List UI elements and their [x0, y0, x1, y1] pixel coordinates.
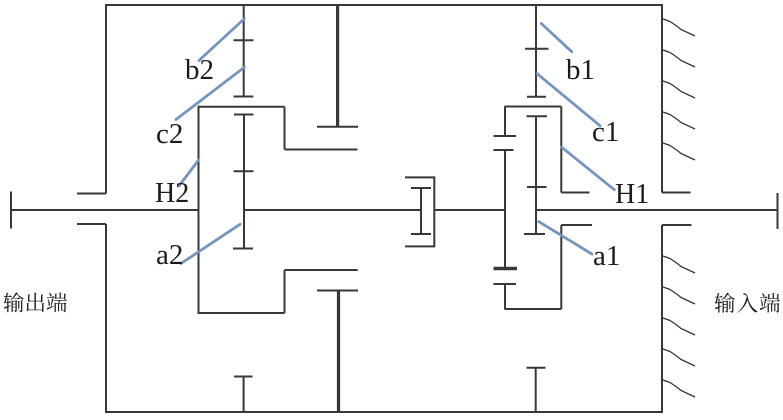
- stage1 left column upper segment: [504, 107, 506, 137]
- input shaft: [536, 209, 778, 211]
- stage2 bottom support tee stem: [243, 377, 245, 413]
- stage1 left column lower mating cap: [494, 283, 517, 285]
- carrier H1 lower stub: [561, 224, 592, 226]
- leader H2: [179, 160, 199, 186]
- carrier H2 right edge lower: [284, 270, 286, 313]
- svg-text:H2: H2: [155, 178, 189, 209]
- stage2 planet gear top tooth cap: [234, 114, 254, 116]
- stage2 planet and sun gear line: [243, 115, 245, 249]
- ground hatching on right wall: [663, 19, 695, 397]
- casing top wall: [105, 4, 663, 6]
- casing right wall upper bearing stub: [662, 192, 691, 194]
- carrier H2 upper shelf arm: [285, 149, 358, 151]
- stage2 ring gear c2 tooth cap: [234, 96, 254, 98]
- leader b2: [199, 19, 244, 61]
- svg-text:H1: H1: [615, 179, 649, 210]
- stage2 ring gear b2 tooth tick: [234, 39, 254, 41]
- intermediate shaft left of coupling: [244, 209, 421, 211]
- casing left wall lower bearing stub: [77, 223, 106, 225]
- leader b1: [541, 24, 572, 52]
- casing right wall lower bearing stub: [662, 224, 692, 226]
- casing right wall upper: [661, 4, 663, 193]
- carrier H1 top edge: [505, 106, 562, 108]
- stage1 planet gear top tooth cap: [527, 115, 548, 117]
- carrier H2 right edge upper: [284, 107, 286, 150]
- carrier H2 lower shelf arm: [285, 269, 358, 271]
- carrier H1 right edge lower: [560, 225, 562, 309]
- input end bar: [777, 193, 779, 229]
- stage1 left column upper tooth cap: [494, 135, 517, 137]
- leader a2: [181, 224, 240, 263]
- carrier H2 bottom edge: [198, 312, 285, 314]
- intermediate shaft right of coupling: [434, 209, 505, 211]
- stage2 fixed gear bottom tooth cap: [317, 290, 358, 292]
- output shaft: [11, 209, 199, 211]
- stage1 left column lower segment: [504, 284, 506, 309]
- coupling hub bottom cap: [411, 233, 431, 235]
- svg-text:c1: c1: [592, 116, 619, 148]
- svg-text:b2: b2: [185, 54, 214, 86]
- casing left wall upper bearing stub: [77, 193, 106, 195]
- coupling hub top cap: [411, 187, 431, 189]
- output end bar: [10, 192, 12, 229]
- stage1 planet and sun gear line: [535, 116, 537, 234]
- stage2 sun gear a2 bottom tooth cap: [233, 248, 253, 250]
- svg-text:a1: a1: [593, 240, 620, 272]
- stage2 ring gear b2/c2 line from casing: [243, 5, 245, 97]
- svg-text:a2: a2: [156, 239, 183, 271]
- carrier H1 bottom edge: [505, 308, 562, 310]
- text 输出端 output end: [4, 292, 67, 312]
- carrier H2 left edge: [198, 106, 200, 314]
- casing bottom wall: [105, 411, 663, 413]
- carrier H2 top edge: [198, 106, 285, 108]
- leader c1: [537, 74, 600, 126]
- stage2 planet/sun mesh tick: [234, 170, 254, 172]
- leader lines: [176, 19, 614, 264]
- stage1 bottom support tee cap: [527, 367, 546, 369]
- stage1 bottom support tee stem: [535, 368, 537, 412]
- stage1 sun gear a1 bottom tooth cap: [524, 233, 545, 235]
- casing left wall upper: [105, 4, 107, 194]
- stage2 fixed gear shaft bottom (thick): [337, 291, 340, 413]
- text 输入端 input end: [715, 293, 780, 313]
- leader c2: [176, 67, 244, 119]
- casing left wall lower: [105, 224, 107, 413]
- stage1 left column gear body: [504, 150, 506, 268]
- stage2 fixed gear top tooth cap: [317, 126, 358, 128]
- stage1 left column mating tooth cap: [494, 149, 514, 151]
- leader H1: [562, 147, 615, 190]
- coupling inner hub bar: [420, 188, 422, 234]
- leader a1: [539, 222, 592, 255]
- stage1 planet/sun mesh tick: [527, 186, 547, 188]
- svg-text:b1: b1: [566, 54, 595, 86]
- stage1 ring gear c1 tooth cap: [527, 96, 546, 98]
- svg-text:c2: c2: [156, 118, 183, 150]
- carrier H1 upper stub: [561, 192, 589, 194]
- coupling sleeve bracket: [405, 177, 434, 246]
- stage1 ring gear b1/c1 line from casing: [535, 5, 537, 97]
- carrier H1 right edge upper: [560, 107, 562, 193]
- stage2 fixed gear shaft top (thick): [336, 5, 339, 127]
- stage1 ring gear b1 tooth tick: [525, 48, 549, 50]
- casing right wall lower: [661, 225, 663, 413]
- stage1 left column thick tooth cap: [494, 267, 518, 270]
- stage2 bottom support tee cap: [234, 376, 253, 378]
